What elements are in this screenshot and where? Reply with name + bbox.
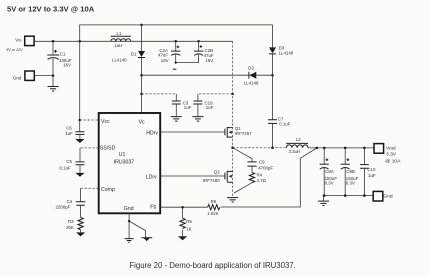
resistor R5 [182,207,184,218]
svg-text:5V or 12V: 5V or 12V [6,48,23,52]
svg-text:16V: 16V [205,58,213,63]
resistor R3 [78,218,83,230]
wire SS/SD pin [80,147,99,149]
svg-text:@ 10A: @ 10A [385,159,401,165]
svg-text:2200pF: 2200pF [56,205,71,210]
svg-text:1.62K: 1.62K [207,211,219,216]
svg-text:R6: R6 [211,199,217,204]
ground IC Gnd pin [128,214,130,239]
wire gnd stub [35,75,53,77]
svg-text:R5: R5 [186,219,192,224]
svg-text:4700pF: 4700pF [258,166,273,171]
wire Vcc pin [80,119,99,121]
svg-text:Gnd: Gnd [13,76,22,81]
svg-text:20K: 20K [66,225,74,230]
wire HDrv [160,131,225,133]
resistor R4 [251,166,253,172]
svg-text:C8B: C8B [346,169,355,174]
node pre-rail / D1 [140,24,143,27]
capacitor C2A [174,40,177,43]
diode D2 [248,72,250,79]
wire output gnd rail [323,195,374,197]
capacitor C3 [142,93,177,95]
ground output [323,196,325,201]
svg-text:L1: L1 [117,31,122,36]
wire pre-L1 tap rail [80,25,273,48]
capacitor C6 [79,120,81,132]
terminal Vout [374,144,384,154]
svg-text:LL4148: LL4148 [244,80,259,85]
svg-text:16V: 16V [63,63,71,68]
wire output rail [308,147,374,149]
resistor R6 [208,205,220,210]
svg-text:Gnd: Gnd [383,193,393,199]
svg-text:U1: U1 [119,152,126,158]
svg-text:R4: R4 [257,173,263,178]
wire Vin rail [34,40,232,42]
svg-text:6.3V: 6.3V [325,181,334,186]
svg-text:4.7Ω: 4.7Ω [257,178,267,183]
node Vc-C3 [140,93,143,96]
svg-text:47uF: 47uF [158,53,168,58]
svg-text:0.1uF: 0.1uF [60,165,72,170]
svg-text:C9: C9 [259,160,265,165]
svg-text:C6: C6 [66,125,72,130]
transistor Q2 [224,173,226,180]
terminal Gnd (output) [373,191,383,201]
wire main vertical (Q1/Q2 leg) [232,41,234,197]
svg-text:1K: 1K [186,226,191,231]
svg-text:1uF: 1uF [184,105,192,110]
svg-text:C5: C5 [66,159,72,164]
diode D3 [269,47,276,53]
diode D1 [141,25,143,51]
terminal Vin [25,36,34,45]
svg-text:3.3uH: 3.3uH [289,149,301,154]
svg-text:Gnd: Gnd [124,206,134,212]
svg-text:LL4148: LL4148 [279,51,294,56]
transistor Q1 [224,129,226,136]
capacitor C19 [198,93,233,95]
capacitor C1 [52,41,54,54]
capacitor C7 (bootstrap) [272,75,274,119]
svg-text:Vout: Vout [386,146,396,152]
svg-text:C10: C10 [367,167,376,172]
wire C2 bottoms [176,62,199,64]
node Vin-column [78,40,81,43]
svg-text:1uF: 1uF [368,173,376,178]
svg-text:Vcc: Vcc [101,119,110,125]
svg-text:IRU3037: IRU3037 [114,159,135,165]
svg-text:D3: D3 [279,45,285,50]
svg-text:D1: D1 [131,52,137,57]
svg-text:C1: C1 [60,51,66,56]
svg-text:16V: 16V [161,58,169,63]
capacitor C9 (snubber) [233,148,252,162]
svg-text:3.3V: 3.3V [386,152,397,158]
svg-text:SS/SD: SS/SD [100,145,116,151]
capacitor C8A [323,148,325,164]
svg-text:D2: D2 [248,65,254,70]
wire Fb [160,206,182,208]
node Vin-C1 [52,40,55,43]
capacitor C4 [80,188,82,201]
svg-text:Vc: Vc [139,120,145,126]
svg-text:LL4148: LL4148 [112,57,127,62]
svg-text:1uF: 1uF [206,105,214,110]
svg-text:VIN: VIN [15,38,22,43]
wire Vc net [142,74,249,76]
svg-text:Figure 20 - Demo-board applica: Figure 20 - Demo-board application of IR… [129,261,295,270]
svg-text:Fb: Fb [150,205,156,211]
capacitor C2B [197,40,200,43]
terminal Gnd (input) [25,71,34,80]
wire LDrv [160,175,225,177]
left column wire [79,41,81,120]
wire Comp pin [81,187,99,189]
capacitor C5 [79,148,81,162]
op IC U1 IRU3037 [99,113,161,213]
svg-text:IRF7460: IRF7460 [203,178,220,183]
svg-text:5V or 12V to 3.3V @ 10A: 5V or 12V to 3.3V @ 10A [7,5,95,14]
ground (input) [52,76,54,87]
svg-text:1uF: 1uF [65,131,73,136]
svg-text:Q2: Q2 [214,170,220,175]
svg-text:Q1: Q1 [235,126,241,131]
svg-text:HDrv: HDrv [146,131,158,137]
svg-text:C8A: C8A [325,169,334,174]
svg-text:L2: L2 [296,137,301,142]
capacitor C10 [363,148,365,165]
wire SW node [233,147,286,149]
svg-text:6.3V: 6.3V [346,181,355,186]
svg-text:Comp: Comp [101,187,115,193]
svg-text:LDrv: LDrv [146,174,157,180]
capacitor C8B [344,148,346,164]
svg-text:IRF7457: IRF7457 [235,131,252,136]
svg-text:1uH: 1uH [114,43,122,48]
svg-text:R3: R3 [68,219,74,224]
svg-text:0.1uF: 0.1uF [279,122,291,127]
svg-text:C4: C4 [67,199,73,204]
ground Q2 source [227,198,238,202]
wire feedback [221,148,317,207]
